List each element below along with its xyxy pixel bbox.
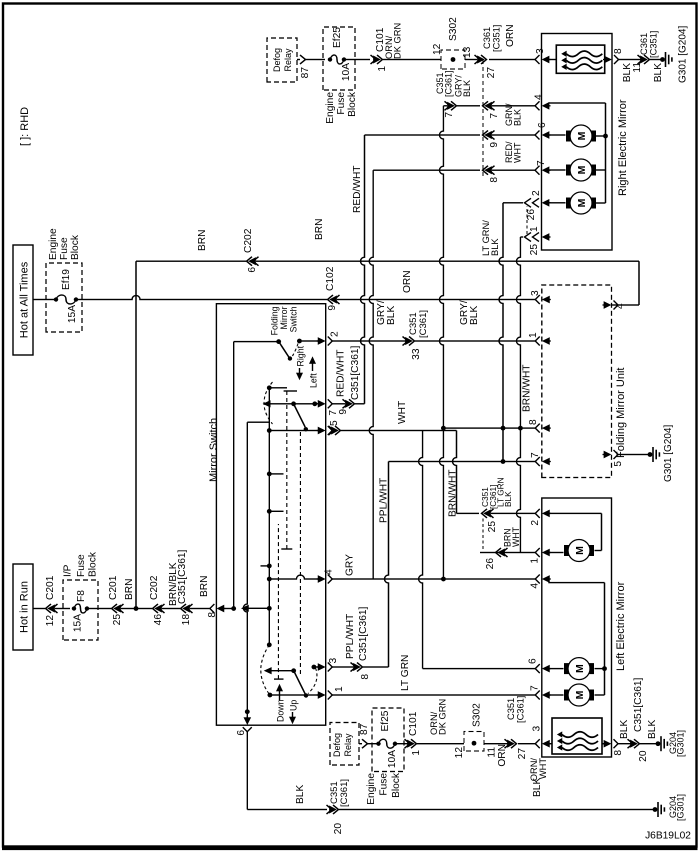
right mirror motor M2 (566, 165, 572, 176)
svg-text:S302: S302 (448, 17, 459, 41)
svg-text:[C351]: [C351] (492, 25, 502, 52)
linkage stub 1 (269, 510, 283, 512)
fuse F8 15A I/P Fuse Block (63, 580, 98, 640)
svg-text:4: 4 (530, 583, 541, 589)
svg-text:BLK: BLK (295, 785, 306, 804)
left mirror pin 1 wire (480, 552, 535, 554)
folding unit pin 5 (614, 450, 619, 459)
left mirror internal wires (548, 512, 601, 514)
connector C102 pin 9 (328, 295, 334, 304)
left mirror pin 6 (535, 664, 540, 673)
svg-text:F8: F8 (76, 590, 87, 602)
connector C201 pin 25 (112, 604, 118, 613)
svg-text:Left Electric Mirror: Left Electric Mirror (615, 581, 627, 671)
svg-text:8: 8 (613, 48, 624, 54)
svg-text:87: 87 (359, 723, 370, 735)
svg-text:BLK: BLK (619, 720, 630, 739)
svg-text:[C361]: [C361] (444, 70, 454, 97)
connector C351[C361] pin 33 (409, 337, 415, 346)
connector C351[C361] pin 9 (349, 399, 355, 408)
svg-text:15A: 15A (67, 305, 78, 323)
switch pin 2 (328, 337, 333, 346)
svg-text:6: 6 (247, 267, 258, 273)
connector C351[C361] pin 7 (451, 101, 457, 110)
svg-text:2: 2 (530, 520, 541, 526)
svg-text:3: 3 (328, 658, 339, 664)
svg-text:7: 7 (530, 452, 541, 458)
svg-text:46: 46 (153, 614, 164, 626)
svg-text:[G301]: [G301] (676, 794, 686, 821)
svg-text:3: 3 (532, 726, 543, 732)
svg-text:5: 5 (329, 420, 340, 426)
switch pin 5 (328, 426, 333, 435)
mech link dashed DL1 (286, 391, 288, 549)
switch pin 7 (328, 399, 333, 408)
svg-text:27: 27 (517, 748, 528, 760)
tick DL1 left (281, 548, 292, 550)
folding mirror unit box (542, 285, 612, 478)
right mirror motor M3 (566, 198, 572, 209)
svg-text:BLK: BLK (490, 238, 500, 256)
mirror switch box (216, 304, 325, 726)
svg-text:Up: Up (289, 700, 299, 711)
svg-text:M: M (574, 546, 586, 555)
svg-text:Block: Block (391, 772, 402, 798)
svg-text:BLK: BLK (653, 63, 664, 82)
svg-text:BRN/WHT: BRN/WHT (522, 364, 533, 412)
switch pin 3 (328, 663, 333, 672)
svg-text:6: 6 (537, 122, 548, 128)
left mirror motor M2 (564, 663, 570, 674)
svg-text:2: 2 (330, 331, 341, 337)
svg-text:WHT: WHT (538, 758, 548, 779)
svg-text:10A: 10A (387, 750, 398, 768)
mech link dashed DL3 (277, 524, 279, 679)
right mirror motor M1 (566, 131, 572, 142)
svg-text:C101: C101 (408, 711, 419, 736)
svg-text:Fuse: Fuse (59, 237, 70, 260)
connector C351[C361] pin 20 left (634, 739, 640, 748)
right mirror pin 4 (535, 101, 540, 110)
svg-text:7: 7 (444, 112, 455, 118)
svg-text:DK GRN: DK GRN (438, 699, 448, 735)
svg-text:PPL/WHT: PPL/WHT (345, 614, 356, 659)
svg-text:13: 13 (462, 46, 473, 58)
svg-text:15A: 15A (73, 614, 84, 632)
svg-text:Hot at All Times: Hot at All Times (19, 261, 31, 338)
relay pin 87 bottom (362, 739, 368, 748)
label Hot at All Times (13, 245, 33, 355)
RHD connector pin 7 on pin-4 wire (483, 101, 489, 110)
up/down big dashed arc (261, 645, 270, 695)
folding mirror unit pin 1 (535, 337, 540, 346)
svg-text:10A: 10A (341, 63, 352, 81)
svg-text:1: 1 (529, 226, 540, 232)
right mirror internal wires (548, 134, 566, 136)
svg-text:Switch: Switch (289, 306, 299, 332)
svg-text:[C361]: [C361] (418, 310, 429, 338)
connector C351[C361] pin 8 (357, 663, 363, 672)
right mirror pin 6 (535, 131, 540, 140)
svg-text:S302: S302 (472, 703, 483, 727)
svg-text:Hot in Run: Hot in Run (19, 581, 31, 633)
svg-text:C201: C201 (45, 575, 56, 600)
svg-text:BRN: BRN (197, 229, 208, 251)
svg-text:BLK: BLK (462, 80, 472, 97)
svg-text:LT GRN: LT GRN (400, 655, 411, 691)
wire BLK from switch pin 6 (246, 732, 248, 810)
linkage stub 0 (267, 564, 272, 569)
connector C351[C361] pin 27 bottom (511, 739, 517, 748)
right mirror pin 8 (614, 55, 619, 64)
switch pin 1 (328, 691, 333, 700)
left/right big dashed arc (264, 382, 273, 424)
splice S302 bottom (464, 732, 484, 752)
svg-text:Block: Block (70, 234, 81, 260)
svg-text:25: 25 (112, 614, 123, 626)
wire Hot in Run feed (33, 608, 45, 610)
svg-text:Right: Right (296, 345, 306, 366)
folding mirror unit pin 7 (535, 457, 540, 466)
svg-text:C351[C361]: C351[C361] (177, 549, 188, 604)
svg-text:25: 25 (487, 521, 498, 533)
svg-text:Fuse: Fuse (336, 92, 347, 115)
bus GRY/BLK to right mirror pin 4 (439, 106, 443, 579)
folding mirror unit pin 8 (535, 424, 540, 433)
bus LT GRN/BLK (499, 203, 503, 462)
svg-text:M: M (576, 198, 588, 207)
left mirror motor M3 (564, 690, 570, 701)
left/right switch blade (294, 404, 306, 427)
RHD connector pin 8 on pin-7 wire (483, 166, 489, 175)
splice S302 (441, 50, 465, 69)
svg-text:12: 12 (45, 615, 56, 627)
left mirror pin 4 entry (535, 575, 540, 584)
svg-text:Right Electric Mirror: Right Electric Mirror (617, 99, 629, 196)
right mirror pin 1 (543, 234, 550, 240)
svg-text:C361: C361 (639, 33, 649, 55)
switch internal wire to folding switch (233, 342, 235, 609)
fuse Ef19 15A Engine Fuse Block (46, 263, 82, 332)
svg-text:C202: C202 (149, 575, 160, 600)
wire WHT from switch pin 5 (335, 426, 341, 435)
svg-text:GRY: GRY (345, 554, 356, 576)
svg-text:Ef25: Ef25 (380, 710, 391, 731)
switch pin 7 internal wire (312, 401, 317, 406)
svg-text:Relay: Relay (283, 48, 293, 72)
wire ORN vertical with hop over BRN branch (76, 296, 327, 300)
svg-text:3: 3 (535, 48, 546, 54)
svg-text:[ ]: RHD: [ ]: RHD (19, 107, 31, 146)
svg-text:87: 87 (300, 67, 311, 79)
folding mirror unit pin 4 (614, 301, 619, 310)
svg-text:33: 33 (411, 348, 422, 360)
switch pin 6 internal wire (245, 709, 250, 714)
left mirror heater (552, 718, 602, 754)
switch pin 6 (243, 727, 252, 732)
svg-text:1: 1 (411, 750, 422, 756)
node BRN junction (134, 606, 139, 611)
svg-text:Relay: Relay (343, 733, 353, 757)
svg-text:C201: C201 (108, 575, 119, 600)
svg-text:BLK: BLK (503, 491, 513, 507)
svg-text:Mirror: Mirror (279, 306, 289, 329)
svg-text:26: 26 (526, 209, 537, 221)
right electric mirror box (542, 34, 613, 251)
right mirror pin 2 (543, 200, 550, 206)
svg-text:BLK: BLK (513, 109, 523, 126)
fuse Ef25 10A Engine Fuse Block bottom (372, 708, 404, 772)
bus RED/WHT to right mirror pin 6 (355, 403, 365, 405)
svg-text:2: 2 (531, 190, 542, 196)
svg-text:Defog: Defog (272, 48, 282, 72)
svg-text:M: M (576, 165, 588, 174)
svg-text:9: 9 (489, 142, 500, 148)
svg-text:18: 18 (181, 614, 192, 626)
switch internal feed bus (268, 388, 270, 645)
connector C351[C361] pin 25 right (525, 233, 532, 242)
svg-text:11: 11 (487, 747, 498, 758)
defog relay bottom (330, 723, 359, 766)
bus to left mirror pin 2 (453, 431, 457, 514)
svg-text:11: 11 (632, 62, 643, 73)
left/right switch arrow (264, 401, 271, 407)
bus WHT to left mirror pin 6 (419, 431, 423, 669)
svg-text:Defog: Defog (332, 733, 342, 757)
svg-text:7: 7 (530, 685, 541, 691)
svg-text:Mirror Switch: Mirror Switch (208, 418, 220, 482)
svg-text:[C361]: [C361] (516, 696, 526, 723)
switch moving contact arrow A1 (242, 605, 249, 611)
linkage stub 2 (269, 473, 283, 475)
RHD connector pin 9 on pin-6 wire (483, 131, 489, 140)
connector C351[C361] pin 25 left (482, 509, 488, 518)
svg-text:6: 6 (528, 658, 539, 664)
svg-text:Folding: Folding (270, 306, 280, 335)
folding unit pin 8 wire (443, 427, 535, 429)
svg-text:Fuse: Fuse (379, 773, 390, 796)
left electric mirror box (542, 498, 612, 757)
ground G204 [G301] switch (653, 807, 658, 812)
svg-text:8: 8 (360, 674, 371, 680)
bus BRN/WHT lower (516, 237, 520, 553)
svg-text:8: 8 (613, 750, 624, 756)
svg-text:26: 26 (485, 558, 496, 570)
svg-text:[C361]: [C361] (339, 779, 350, 807)
RHD dashed link left (482, 517, 484, 549)
svg-text:8: 8 (489, 177, 500, 183)
wire from switch pin 7 (332, 403, 345, 405)
connector C101 pin 1 bottom (411, 739, 417, 748)
ground G301 [G204] folding (648, 452, 653, 457)
svg-text:Ef19: Ef19 (61, 269, 72, 290)
connector C361[C351] pin 27 (481, 55, 487, 64)
up/down linkage dashed arc (308, 668, 317, 694)
svg-text:3: 3 (530, 290, 541, 296)
svg-text:9: 9 (327, 305, 338, 311)
connector C351[C361] pin 26 left (496, 548, 502, 557)
svg-text:20: 20 (638, 750, 649, 762)
svg-text:Down: Down (276, 699, 286, 722)
svg-text:1: 1 (530, 558, 541, 564)
left mirror motor M1 (564, 545, 570, 556)
svg-text:4: 4 (534, 94, 545, 100)
right mirror pin 3 (535, 55, 540, 64)
svg-text:C202: C202 (243, 228, 254, 253)
wire Hot at All Times feed (33, 299, 56, 301)
svg-text:WHT: WHT (513, 142, 523, 163)
svg-text:C351[C361]: C351[C361] (633, 677, 644, 732)
bus to right mirror pin 7 (369, 170, 373, 579)
connector C201 pin 12 (46, 604, 52, 613)
folding switch blade (279, 342, 290, 358)
switch pin 4 internal wire (269, 575, 318, 579)
svg-text:WHT: WHT (397, 401, 408, 424)
svg-text:Engine: Engine (48, 228, 59, 260)
svg-text:BLK: BLK (647, 720, 658, 739)
svg-text:Engine: Engine (325, 92, 336, 124)
svg-text:C351[C361]: C351[C361] (350, 345, 361, 400)
svg-text:[G301]: [G301] (676, 730, 686, 757)
svg-text:Folding Mirror Unit: Folding Mirror Unit (615, 368, 627, 458)
left mirror pin 7 (535, 691, 540, 700)
svg-text:5: 5 (613, 461, 624, 467)
svg-text:6: 6 (236, 730, 247, 736)
defog relay top (267, 38, 297, 82)
svg-text:DK GRN: DK GRN (393, 23, 403, 59)
up/down switch blade (294, 671, 306, 695)
tick DL1 right (284, 390, 297, 392)
connector C202 pin 46 (153, 604, 159, 613)
wire BRN branch to C202 pin 6 (135, 261, 137, 608)
svg-text:BRN: BRN (314, 218, 325, 240)
svg-text:1: 1 (528, 332, 539, 338)
svg-text:ORN: ORN (402, 270, 413, 293)
svg-text:4: 4 (324, 569, 335, 575)
svg-text:Block: Block (88, 551, 99, 577)
svg-text:4: 4 (615, 303, 626, 309)
ground G301 [G204] right (660, 57, 665, 62)
svg-text:J6B19L02: J6B19L02 (645, 831, 691, 842)
svg-text:RED/WHT: RED/WHT (352, 165, 363, 213)
svg-text:C361: C361 (482, 27, 492, 49)
svg-text:7: 7 (489, 113, 500, 119)
svg-text:1: 1 (377, 66, 388, 72)
svg-text:12: 12 (432, 43, 443, 55)
left mirror pin 1 (535, 548, 540, 557)
folding switch linkage dashed (293, 344, 299, 357)
svg-text:G301 [G204]: G301 [G204] (678, 26, 689, 83)
left mirror pin 2 (535, 509, 540, 518)
svg-text:BLK: BLK (469, 306, 480, 325)
svg-text:M: M (576, 131, 588, 140)
svg-text:WHT: WHT (511, 526, 521, 547)
svg-text:BRN/WHT: BRN/WHT (448, 469, 459, 517)
ground G204 [G301] left mirror (656, 741, 661, 746)
svg-text:25: 25 (529, 244, 540, 256)
label Right with arrow (297, 373, 303, 380)
linkage stub 3 (269, 387, 287, 389)
wire BRN down to folding unit pin 4 (256, 260, 639, 262)
svg-text:27: 27 (486, 67, 497, 79)
svg-text:BLK: BLK (386, 306, 397, 325)
svg-text:Block: Block (347, 91, 358, 117)
folding switch common node (276, 339, 281, 344)
connector C351[C361] pin 20 (333, 805, 339, 814)
left mirror pin 3 (535, 739, 540, 748)
RHD dashed link right (526, 206, 528, 234)
svg-text:C351[C361]: C351[C361] (358, 606, 369, 661)
fuse Ef25 10A Engine Fuse Block right (323, 27, 355, 90)
right mirror heater (556, 45, 604, 73)
tick DL3 (274, 678, 284, 680)
connector C351[C361] pin 26 right (525, 198, 532, 207)
folding mirror unit pin 3 (535, 295, 540, 304)
switch pin 3 internal wire (312, 665, 317, 670)
svg-text:I/P: I/P (63, 564, 74, 577)
svg-text:Left: Left (309, 373, 319, 388)
svg-text:ORN: ORN (505, 24, 516, 47)
connector C361[C351] pin 11 (644, 55, 650, 64)
svg-text:M: M (574, 664, 586, 673)
svg-text:20: 20 (333, 823, 344, 835)
switch pin 1 internal wire (268, 693, 273, 698)
svg-text:BRN: BRN (199, 575, 210, 597)
connector C351[C361] pin 18 (181, 604, 187, 613)
svg-text:Engine: Engine (366, 773, 377, 805)
svg-text:Fuse: Fuse (76, 554, 87, 577)
switch internal feed from pin 8 (223, 608, 234, 610)
mech link dashed DL2 (299, 430, 301, 674)
svg-text:RED/WHT: RED/WHT (336, 349, 347, 397)
left mirror pin 8 (602, 743, 605, 745)
svg-text:C351: C351 (506, 698, 516, 720)
switch pin 4 (328, 575, 333, 584)
svg-text:M: M (574, 690, 586, 699)
svg-text:BRN: BRN (124, 578, 135, 600)
svg-text:1: 1 (334, 686, 345, 692)
connector C101 pin 1 (377, 55, 383, 64)
svg-text:C102: C102 (325, 266, 336, 291)
right mirror pin 7 (535, 166, 540, 175)
right mirror pin 1 wire (520, 236, 523, 238)
svg-text:[C351]: [C351] (649, 31, 659, 58)
svg-text:8: 8 (528, 419, 539, 425)
svg-text:9: 9 (338, 409, 349, 415)
RHD dashed wire from C361 pin 27 (482, 60, 484, 177)
svg-text:12: 12 (454, 747, 465, 759)
folding switch output node to pin 2 (297, 339, 302, 344)
label Hot in Run (13, 564, 33, 650)
relay pin 87 (300, 55, 306, 64)
up/down switch arrow (265, 668, 272, 674)
svg-text:G301 [G204]: G301 [G204] (663, 425, 674, 482)
svg-text:Ef25: Ef25 (332, 27, 343, 48)
